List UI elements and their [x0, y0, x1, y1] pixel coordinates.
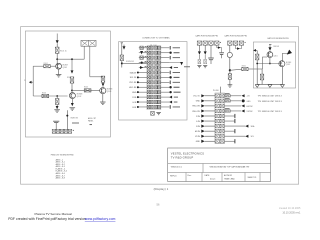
gnd below PL-100: [151, 111, 155, 115]
collector node wire: [257, 63, 282, 65]
svg-text:HSYNC: HSYNC: [247, 106, 254, 108]
PL-200 row1 output +5V: [223, 95, 226, 97]
connector J100 pin row: [52, 129, 56, 133]
PL-200 row 6: [215, 119, 219, 123]
svg-text:PDF created with FinePrint pdf: PDF created with FinePrint pdfFactory tr…: [8, 217, 86, 221]
svg-text:NOKNOW: NOKNOW: [126, 61, 134, 63]
PL-200 row 3: [215, 104, 219, 108]
PL-100 row 11: [147, 95, 150, 98]
PL-100 row 7: [147, 76, 150, 79]
svg-text:PL-200: PL-200: [213, 90, 219, 92]
ground Q102: [70, 108, 76, 110]
wire R302 to rail: [256, 60, 258, 85]
input net arrow: [30, 81, 34, 83]
PL-200 row9 output SCL: [224, 135, 245, 137]
wire Q102 collector: [71, 59, 73, 70]
title block frame: [168, 148, 271, 182]
wire C202 leg: [204, 45, 206, 51]
svg-text:YELLOW: YELLOW: [192, 106, 200, 108]
svg-text:VESTEL ELECTRONICS: VESTEL ELECTRONICS: [171, 151, 204, 155]
resistor R107: [56, 96, 58, 98]
svg-text:TV R&D GROUP: TV R&D GROUP: [171, 155, 194, 159]
node N6: [229, 69, 231, 71]
svg-text:CAP FOR NOKNOW PIN: CAP FOR NOKNOW PIN: [267, 37, 289, 40]
resistor R103: [70, 77, 74, 83]
supply tick: [269, 44, 271, 46]
left sub-circuit box: [25, 31, 110, 137]
connector PL-200 body: [215, 93, 225, 143]
PL-100 row 8: [147, 81, 150, 84]
PL-200 row7 output SDA: [224, 125, 245, 127]
svg-text:Q103: Q103: [107, 91, 111, 93]
svg-text:HS 1.8V: HS 1.8V: [129, 87, 137, 89]
svg-text:TP3 VMD100 CMT DIN 3.3: TP3 VMD100 CMT DIN 3.3: [258, 96, 282, 98]
resistor R106: [42, 94, 49, 97]
svg-text:R103: R103: [67, 77, 71, 79]
svg-text:VSYNC: VSYNC: [247, 111, 254, 113]
svg-text:R IN: R IN: [132, 97, 136, 99]
node N3: [71, 58, 73, 60]
cap C209 circle: [227, 52, 232, 57]
wire Q103 emitter: [102, 94, 104, 102]
svg-text:Q301: Q301: [273, 55, 277, 57]
arrow R107 down: [56, 105, 58, 107]
arrow Q102 emitter: [71, 103, 74, 106]
svg-text:TP4 VMD100 CMT DIN 3.3: TP4 VMD100 CMT DIN 3.3: [258, 101, 282, 103]
wire C206 leg: [229, 45, 231, 52]
arrow C201: [198, 51, 201, 54]
wire node to header pin1: [57, 58, 84, 60]
arrow on wire: [218, 46, 221, 49]
svg-text:HS IN: HS IN: [195, 131, 201, 133]
svg-text:AK36 - 8-8: AK36 - 8-8: [56, 177, 65, 180]
wire C204 bend: [217, 45, 222, 52]
ground R107: [54, 110, 60, 112]
svg-text:1N4148: 1N4148: [273, 46, 279, 48]
ground R202: [203, 65, 207, 67]
svg-text:VIDEO IN: VIDEO IN: [70, 118, 78, 120]
svg-text:SCL 5V: SCL 5V: [130, 77, 137, 79]
transistor Q103: [100, 88, 106, 94]
PL-200 row 7: [215, 124, 219, 128]
svg-text:drawn:: drawn:: [210, 178, 216, 181]
sheet frame: [21, 27, 299, 185]
wire R102 to input bus: [33, 65, 44, 67]
supply branch in box: [121, 43, 123, 55]
svg-text:PIN0 LIST NOKNOW PIN0: PIN0 LIST NOKNOW PIN0: [51, 154, 74, 156]
svg-text:Q302: Q302: [286, 64, 290, 66]
resistor R201: [198, 60, 201, 64]
power arrow V1: [56, 40, 59, 43]
svg-text:www.pdffactory.com: www.pdffactory.com: [85, 217, 116, 221]
wire C201 leg: [198, 45, 200, 51]
transistor Q301: [267, 52, 273, 58]
svg-text:CAPS FOR NOKNOW PIN: CAPS FOR NOKNOW PIN: [195, 34, 218, 37]
resistor R202: [204, 60, 207, 64]
header PL105: [81, 40, 96, 46]
resistor R110: [120, 55, 123, 61]
right sub-circuit box: [253, 42, 295, 88]
wire Q301 emitter to rail node: [269, 58, 271, 64]
svg-text:R101 1k: R101 1k: [60, 51, 67, 53]
svg-text:R105: R105: [84, 87, 88, 89]
connector PL-100 body: [147, 46, 161, 110]
wire Q101 emitter: [58, 69, 60, 74]
PL-200 row3 output HSYNC: [224, 105, 241, 107]
svg-text:TP5 VMD100 CMT DIN 3.3: TP5 VMD100 CMT DIN 3.3: [258, 111, 282, 113]
svg-text:CAPS FOR NOKNOW PIN: CAPS FOR NOKNOW PIN: [224, 34, 247, 37]
svg-text:R106: R106: [42, 93, 46, 95]
wire Q302 emitter: [281, 67, 283, 85]
transistor Q302: [279, 61, 285, 67]
capacitor bank C201-C204: [197, 41, 201, 45]
resistor R302: [256, 54, 259, 60]
node N1: [56, 58, 58, 60]
node N4: [71, 90, 73, 92]
svg-text:SDA 5V: SDA 5V: [130, 71, 137, 74]
svg-text:B IN: B IN: [133, 107, 137, 109]
capacitor C203 plates: [210, 45, 212, 57]
PL-200 row5 output: [224, 115, 235, 117]
net arrow left: [253, 49, 256, 52]
PL-100 row 1: [147, 46, 150, 49]
PL-100 row 6: [147, 71, 150, 74]
svg-text:DATE: DATE: [205, 174, 211, 177]
svg-text:REF-ID: REF-ID: [170, 176, 177, 178]
PL-100 row 2: [147, 51, 150, 54]
PL-200 row 10: [215, 139, 219, 143]
svg-text:G IN: G IN: [196, 121, 200, 123]
wire supply column Q101: [56, 34, 58, 41]
PL-100 row 3: [147, 56, 150, 59]
svg-text:G IN: G IN: [132, 102, 137, 104]
node N5: [66, 115, 68, 117]
wire stub above PL-200: [220, 87, 222, 93]
middle connector box: [119, 42, 187, 120]
transistor Q101: [56, 63, 62, 69]
svg-text:AUTHOR: AUTHOR: [224, 174, 233, 177]
PL-200 row10 output: [224, 140, 235, 142]
svg-text:GND: GND: [196, 101, 201, 103]
PL-200 row4 output VSYNC: [223, 110, 226, 112]
ground Q103: [100, 102, 106, 104]
capacitor C205 plates: [219, 52, 224, 54]
svg-text:VS IN: VS IN: [195, 136, 200, 138]
svg-text:TEAM LEAD: TEAM LEAD: [224, 177, 235, 180]
svg-text:VMD100 BOATS AT TOP CAP BOARD/: VMD100 BOATS AT TOP CAP BOARD/AB TRT: [210, 165, 251, 168]
arrow bus: [237, 47, 240, 50]
wire Q302 collector: [282, 53, 288, 60]
PL-200 row 2: [215, 99, 219, 103]
PL-200 row2 output GND: [223, 100, 226, 102]
resistor R301: [242, 67, 248, 70]
svg-text:R301: R301: [242, 65, 246, 67]
svg-text:created 10.10.2005: created 10.10.2005: [279, 207, 301, 210]
resistor R102: [50, 65, 55, 67]
arrow collector: [71, 70, 74, 73]
PL-100 row 9: [147, 86, 150, 89]
PL-100 row 10: [147, 90, 150, 93]
node N2: [56, 95, 58, 97]
svg-text:YELLOW: YELLOW: [192, 111, 200, 113]
resistor R101: [55, 47, 59, 53]
ground R201: [197, 65, 201, 67]
bottom rail: [257, 83, 282, 85]
PL-200 row 5: [215, 114, 219, 118]
ground Q101: [56, 75, 62, 77]
wire riser pin row: [66, 110, 68, 129]
PL-200 row 8: [215, 129, 219, 133]
wire TP to connector: [122, 62, 147, 64]
PL-200 row 9: [215, 134, 219, 138]
PL-200 row8 output: [224, 130, 235, 132]
arrow loop down: [180, 62, 183, 65]
net wire row4 loop: [169, 61, 181, 64]
input wire right box: [253, 68, 262, 70]
svg-text:SCL: SCL: [251, 136, 255, 138]
PL-100 row 4: [147, 61, 150, 64]
wire to Q301 base: [263, 57, 268, 69]
ground R203: [228, 85, 233, 87]
PL-200 row 4: [215, 109, 219, 113]
wire R101 to node: [56, 53, 58, 66]
svg-text:VMD100 1.0: VMD100 1.0: [171, 166, 183, 168]
ground rail 3: [280, 85, 284, 88]
svg-text:GND: GND: [247, 101, 252, 103]
resistor R303: [260, 74, 263, 80]
wire group2 bus: [236, 45, 242, 48]
arrow supply right box: [269, 45, 271, 47]
svg-text:R102: R102: [44, 63, 48, 65]
PL-100 row 5: [147, 66, 150, 69]
svg-text:Q101: Q101: [63, 67, 67, 69]
node TP: [121, 61, 123, 68]
wire Q103 base: [72, 89, 99, 91]
resistor R105: [84, 89, 91, 92]
arrow supply: [123, 46, 126, 49]
net arrow up-right: [287, 50, 292, 55]
wire Q102 emitter: [71, 99, 73, 103]
ground rail 2: [268, 85, 272, 88]
PL-100 row 12: [147, 100, 150, 103]
svg-text:Q102: Q102: [77, 96, 81, 98]
capacitor C101: [55, 123, 57, 129]
svg-text:CONNECTOR TO CRT PANEL: CONNECTOR TO CRT PANEL: [142, 37, 171, 40]
resistor R203: [228, 74, 231, 80]
svg-text:GND: GND: [132, 92, 137, 94]
transistor Q102: [69, 93, 75, 99]
PL-100 row 13: [147, 105, 150, 108]
wire input bus vertical: [32, 66, 34, 96]
arrow C202: [204, 51, 207, 54]
svg-text:GND: GND: [196, 141, 201, 143]
wire base bus: [33, 95, 67, 97]
capacitor bank C206-C208: [228, 41, 232, 45]
wire header pin2: [89, 46, 91, 77]
wire node to R301: [230, 69, 242, 70]
svg-text:VCC 5V: VCC 5V: [193, 96, 200, 98]
wire header pin1: [83, 46, 85, 59]
svg-text:(Display) 1: (Display) 1: [154, 187, 169, 191]
PL-200 row6 output: [224, 120, 235, 122]
node N8: [256, 63, 258, 65]
resistor R104: [101, 76, 105, 82]
svg-text:Rev:: Rev:: [188, 175, 192, 177]
node N7: [269, 63, 271, 65]
svg-text:10.10.2005 rev1: 10.10.2005 rev1: [282, 211, 301, 214]
svg-text:Plasma TV Service Manual: Plasma TV Service Manual: [35, 212, 73, 216]
ground rail 1: [255, 85, 259, 88]
wire R301 to box: [248, 68, 253, 70]
svg-text:PANEL: PANEL: [88, 119, 93, 122]
wire pin2 to R104: [90, 76, 103, 78]
arrow to Q103: [102, 81, 104, 84]
svg-text:SHEET 31: SHEET 31: [248, 177, 257, 179]
svg-text:VS 1.8V: VS 1.8V: [129, 82, 137, 84]
PL-200 row 1: [215, 94, 219, 98]
